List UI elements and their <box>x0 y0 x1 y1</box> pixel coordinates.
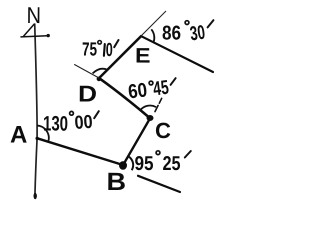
svg-text:25: 25 <box>162 153 180 175</box>
vertex blob B <box>119 161 127 170</box>
arc angle at B <box>128 156 134 170</box>
svg-text:A: A <box>10 122 27 149</box>
degree circle at D <box>98 41 102 45</box>
arc angle at C <box>140 106 156 111</box>
wire B-C <box>123 118 150 164</box>
degree circle at A <box>70 111 74 115</box>
thin prolongation of DE beyond E <box>141 11 166 36</box>
wire A-B <box>37 138 123 165</box>
thin prolongation of CD beyond D <box>74 64 99 78</box>
wire E-F <box>141 36 213 72</box>
svg-text:30: 30 <box>189 22 207 46</box>
arc angle at D <box>93 69 108 74</box>
dashed prolongation of AB beyond B <box>138 176 180 192</box>
arc angle at E <box>151 29 154 42</box>
dashed prolongation of BC beyond C <box>155 98 162 111</box>
wire C-D <box>99 78 150 118</box>
minutes tick at A <box>94 111 99 118</box>
north line <box>35 24 37 197</box>
svg-text:C: C <box>155 118 171 143</box>
svg-text:95: 95 <box>134 153 153 175</box>
degree circle at E <box>185 21 189 25</box>
angle label 10 at D <box>103 44 106 56</box>
svg-text:N: N <box>26 2 41 28</box>
minutes tick at E <box>208 20 214 27</box>
svg-text:130: 130 <box>43 113 68 136</box>
north arrow crossbar <box>21 36 48 37</box>
north arrow crossbar end blob <box>47 34 50 37</box>
svg-text:D: D <box>78 81 97 107</box>
svg-text:B: B <box>106 168 126 196</box>
degree circle at B <box>156 151 160 155</box>
svg-text:86: 86 <box>162 23 181 45</box>
svg-text:E: E <box>135 45 151 68</box>
vertex blob D <box>97 77 102 82</box>
minutes tick at C <box>171 78 176 85</box>
junction blob at A <box>36 137 39 140</box>
wire D-E <box>99 36 141 78</box>
arc angle at A <box>37 126 49 142</box>
svg-text:75: 75 <box>82 40 97 61</box>
north line bottom blob <box>34 193 37 199</box>
minutes tick at B <box>185 151 191 158</box>
svg-text:00: 00 <box>74 112 93 134</box>
svg-text:60: 60 <box>127 79 149 103</box>
degree circle at C <box>149 81 153 85</box>
north arrow head diagonal <box>23 24 34 37</box>
svg-text:0: 0 <box>106 40 113 61</box>
minutes tick at D <box>114 40 118 47</box>
vertex blob C <box>147 115 154 121</box>
svg-text:45: 45 <box>152 77 170 101</box>
